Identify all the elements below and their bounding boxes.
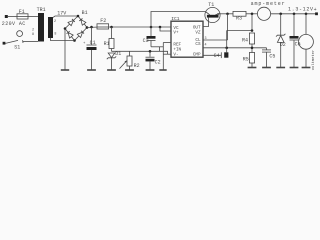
node (226, 13, 229, 16)
fuse F1 (17, 14, 28, 19)
switch S1 (3, 42, 6, 45)
ground (125, 69, 134, 71)
node bottom vertex (73, 39, 76, 42)
node (251, 13, 254, 16)
wire bridge bottom to secondary bottom (51, 38, 75, 41)
wire (246, 13, 258, 15)
node CS junction (225, 47, 228, 50)
node C2/C3 (149, 50, 152, 53)
svg-text:TR1: TR1 (37, 7, 46, 13)
svg-text:CS: CS (195, 42, 201, 47)
capacitor C4 (203, 54, 221, 56)
wire + rail (87, 26, 99, 29)
diode B1 lower-right (77, 31, 84, 38)
svg-text:8: 8 (32, 33, 34, 37)
input terminal L (5, 15, 8, 18)
ground (146, 69, 155, 71)
node (293, 13, 296, 16)
node right vertex (86, 26, 89, 29)
svg-text:V+: V+ (173, 31, 179, 36)
ground (290, 67, 299, 69)
wire V+ (160, 27, 171, 31)
capacitor C5 (266, 48, 268, 50)
svg-text:+: + (83, 42, 86, 46)
wire (8, 16, 17, 18)
zener D2 (280, 14, 282, 35)
wire sense link (227, 30, 252, 32)
resistor R3 (233, 11, 246, 16)
wire (109, 26, 171, 28)
ground (248, 67, 257, 69)
capacitor C2 (149, 51, 151, 57)
svg-text:C3: C3 (143, 38, 149, 44)
node C1 tap (90, 26, 93, 29)
svg-text:T1: T1 (208, 2, 214, 8)
wire CL (203, 39, 228, 41)
svg-text:F1: F1 (19, 9, 25, 15)
wire (28, 16, 38, 18)
wire bridge left to ground (64, 29, 66, 71)
ground (159, 69, 166, 71)
svg-text:1.3-12V: 1.3-12V (288, 7, 313, 13)
wire emitter rail (220, 13, 233, 15)
capacitor C6 (293, 14, 295, 36)
svg-text:F2: F2 (100, 18, 106, 24)
svg-text:2: 2 (32, 29, 34, 33)
wire CS sense row (203, 47, 267, 49)
svg-text:R3: R3 (236, 15, 242, 21)
wire base to OUT (203, 18, 209, 27)
ground (262, 67, 271, 69)
ground (302, 67, 311, 69)
wire sense riser (226, 31, 228, 48)
node (279, 13, 282, 16)
node R1 tap (110, 26, 113, 29)
node V+ branch (159, 26, 162, 29)
svg-text:R4: R4 (242, 37, 248, 43)
svg-text:D1: D1 (115, 51, 121, 57)
node left vertex (64, 27, 67, 30)
node top vertex (77, 15, 80, 18)
node (305, 13, 308, 16)
svg-text:amp-meter: amp-meter (251, 1, 285, 7)
svg-text:8: 8 (54, 33, 56, 37)
potentiometer R2 (129, 51, 131, 56)
svg-text:220V AC: 220V AC (2, 21, 26, 27)
svg-text:C5: C5 (269, 53, 275, 59)
wire to rail (251, 14, 253, 31)
ground (61, 69, 69, 71)
node R4 top (251, 29, 254, 32)
diode B1 upper-right (79, 19, 86, 26)
svg-text:3: 3 (205, 37, 207, 41)
svg-text:C6: C6 (295, 41, 301, 47)
wire V- to ground (163, 53, 171, 55)
wire reference row (112, 51, 168, 54)
diode B1 upper-left (68, 19, 75, 26)
ground (276, 67, 285, 69)
wire collector feed (151, 12, 205, 28)
svg-text:VZ: VZ (195, 30, 201, 35)
ground (107, 69, 116, 71)
capacitor C1 (91, 27, 93, 45)
capacitor C3 (150, 27, 152, 36)
diode B1 lower-left (67, 31, 74, 38)
svg-text:2: 2 (54, 20, 56, 24)
output terminal (315, 12, 318, 15)
svg-text:B1: B1 (82, 10, 88, 16)
svg-text:R5: R5 (243, 57, 249, 63)
wire output rail (271, 13, 317, 15)
svg-text:C4: C4 (214, 53, 220, 59)
svg-text:R2: R2 (134, 63, 140, 69)
svg-text:4: 4 (205, 43, 207, 47)
svg-text:+: + (314, 7, 317, 13)
voltmeter (305, 14, 307, 35)
svg-text:V-: V- (173, 52, 178, 57)
svg-text:voltmeter: voltmeter (311, 50, 316, 71)
svg-text:C2: C2 (155, 59, 161, 65)
wire REF staircase (163, 42, 171, 44)
svg-text:CMP: CMP (193, 53, 201, 58)
node divider tap (251, 47, 254, 50)
resistor R1 (111, 27, 113, 39)
wire secondary top to bridge (53, 16, 78, 17)
svg-text:S1: S1 (14, 45, 20, 51)
node C3/T1 rail tap (150, 26, 153, 29)
ground (87, 69, 96, 71)
